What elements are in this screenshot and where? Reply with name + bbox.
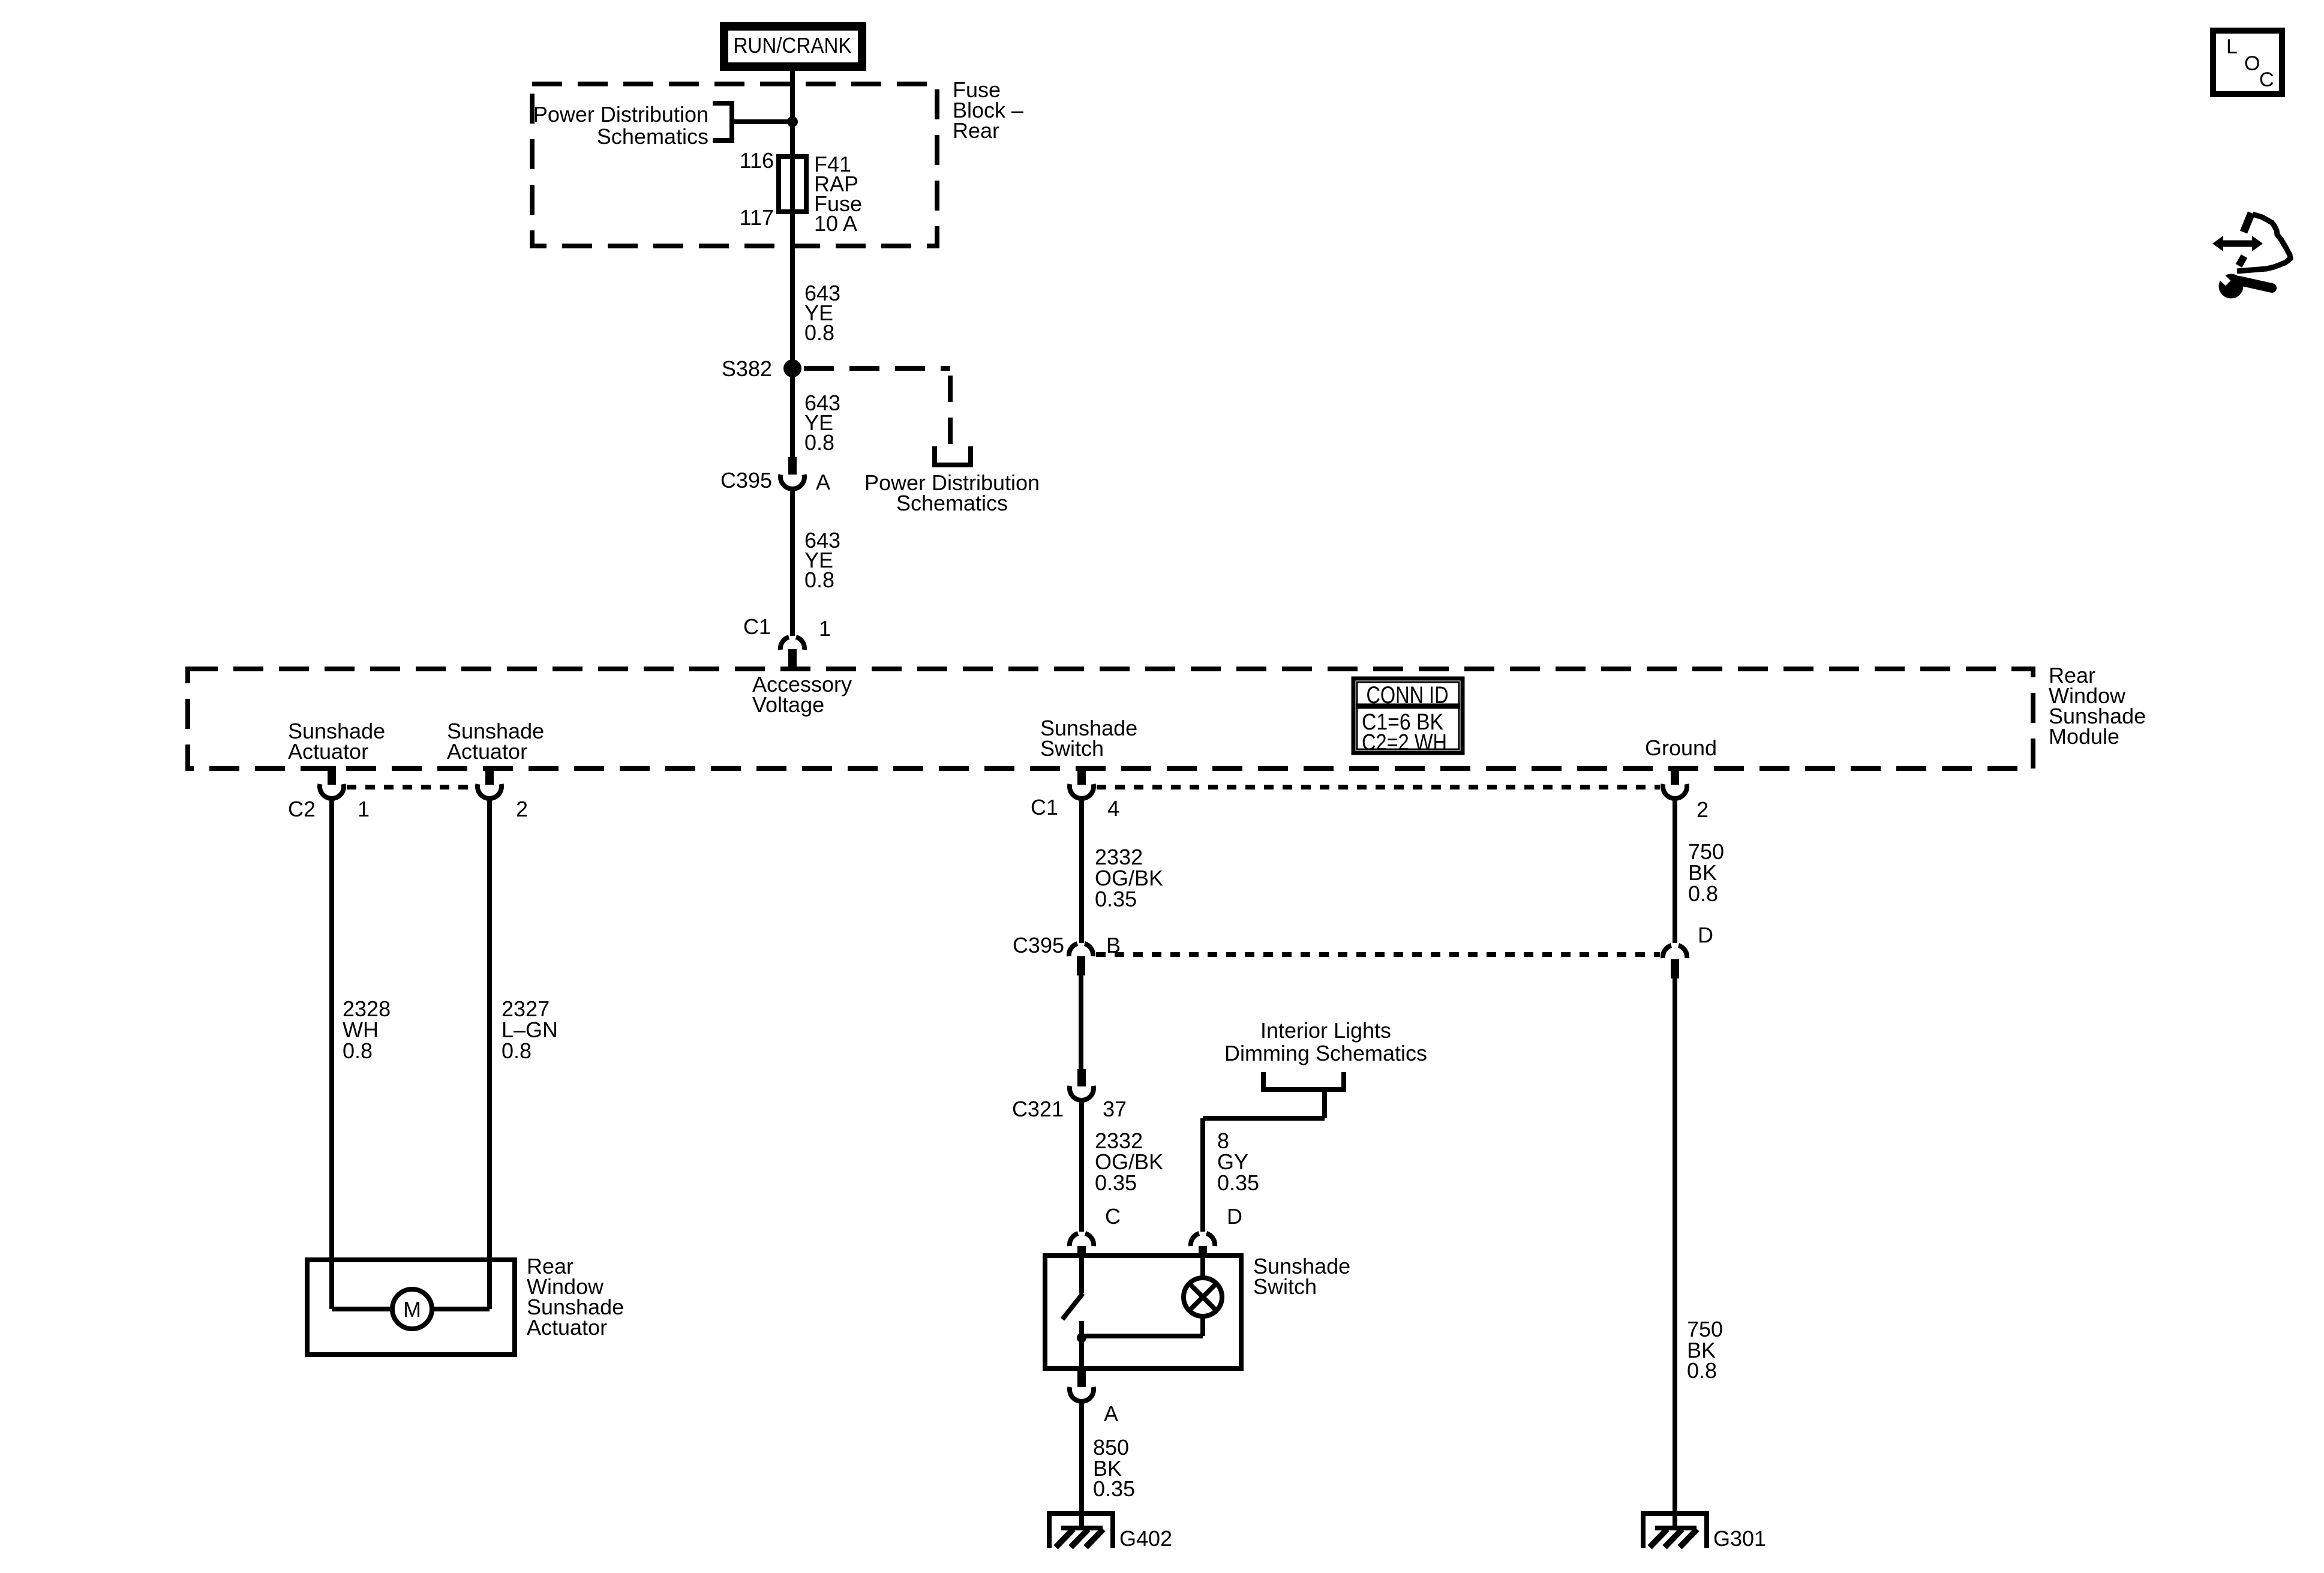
svg-text:Module: Module (2049, 724, 2119, 749)
svg-text:C2=2 WH: C2=2 WH (1362, 730, 1447, 755)
svg-text:0.8: 0.8 (804, 430, 834, 455)
svg-text:G301: G301 (1713, 1526, 1766, 1551)
svg-text:Interior Lights: Interior Lights (1260, 1018, 1391, 1043)
svg-text:1: 1 (819, 616, 831, 641)
svg-text:Actuator: Actuator (527, 1315, 607, 1340)
svg-text:B: B (1106, 933, 1121, 957)
svg-text:D: D (1698, 923, 1713, 947)
svg-text:M: M (403, 1297, 421, 1322)
svg-text:0.8: 0.8 (1687, 1358, 1717, 1383)
svg-text:116: 116 (740, 148, 774, 173)
svg-text:Voltage: Voltage (752, 692, 824, 717)
svg-text:Schematics: Schematics (896, 491, 1008, 515)
svg-text:C1: C1 (1031, 795, 1058, 819)
svg-text:A: A (816, 470, 830, 494)
svg-text:1: 1 (358, 797, 370, 821)
svg-text:Actuator: Actuator (447, 739, 527, 764)
svg-text:Dimming Schematics: Dimming Schematics (1224, 1041, 1427, 1065)
svg-text:117: 117 (740, 205, 774, 230)
svg-text:D: D (1227, 1204, 1242, 1229)
svg-text:0.8: 0.8 (343, 1038, 373, 1063)
svg-text:Switch: Switch (1040, 736, 1104, 761)
svg-text:L: L (2226, 35, 2238, 58)
svg-text:RUN/CRANK: RUN/CRANK (734, 33, 852, 58)
svg-text:0.35: 0.35 (1093, 1476, 1135, 1501)
svg-text:Schematics: Schematics (597, 124, 708, 149)
svg-text:S382: S382 (722, 356, 772, 381)
svg-text:2: 2 (1697, 797, 1709, 822)
svg-text:Power Distribution: Power Distribution (533, 102, 708, 127)
svg-text:0.35: 0.35 (1095, 1170, 1137, 1195)
svg-text:Ground: Ground (1645, 736, 1717, 760)
svg-text:C: C (1105, 1204, 1121, 1229)
svg-text:C395: C395 (720, 468, 772, 493)
svg-text:0.8: 0.8 (502, 1038, 532, 1063)
svg-text:0.8: 0.8 (804, 320, 834, 345)
svg-text:Switch: Switch (1253, 1274, 1317, 1299)
svg-text:0.8: 0.8 (804, 568, 834, 592)
svg-text:A: A (1104, 1401, 1118, 1426)
svg-text:0.35: 0.35 (1095, 887, 1137, 911)
svg-text:Rear: Rear (953, 118, 999, 143)
svg-text:37: 37 (1103, 1097, 1127, 1121)
svg-text:C2: C2 (288, 797, 316, 821)
svg-text:4: 4 (1107, 796, 1119, 821)
svg-text:10 A: 10 A (814, 211, 857, 236)
svg-text:Actuator: Actuator (288, 739, 368, 764)
svg-text:2: 2 (516, 797, 528, 821)
svg-text:CONN ID: CONN ID (1367, 682, 1449, 709)
svg-text:C: C (2259, 68, 2274, 91)
svg-text:C321: C321 (1012, 1097, 1064, 1121)
svg-text:0.8: 0.8 (1688, 881, 1718, 906)
svg-text:O: O (2244, 52, 2260, 75)
svg-text:C395: C395 (1013, 933, 1064, 957)
svg-text:C1: C1 (743, 614, 771, 639)
svg-text:G402: G402 (1119, 1526, 1172, 1551)
svg-text:0.35: 0.35 (1217, 1170, 1259, 1195)
